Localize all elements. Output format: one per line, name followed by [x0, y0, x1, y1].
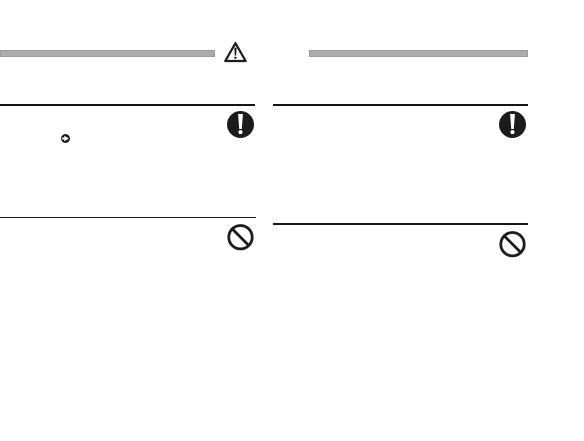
left column rule 2 [0, 217, 256, 219]
left column rule 1 [0, 104, 255, 106]
right mandatory icon (black circle, white exclamation) [499, 111, 526, 138]
left prohibition icon [227, 224, 254, 251]
left mandatory icon (black circle, white exclamation) [227, 111, 254, 138]
right column rule 1 [273, 104, 528, 106]
warning triangle icon [221, 40, 250, 64]
left column header gray bar [0, 50, 215, 57]
right prohibition icon [499, 231, 526, 258]
small circled-arrow reference icon [61, 134, 70, 143]
right column header gray bar [309, 50, 528, 57]
right column rule 2 [273, 223, 528, 225]
